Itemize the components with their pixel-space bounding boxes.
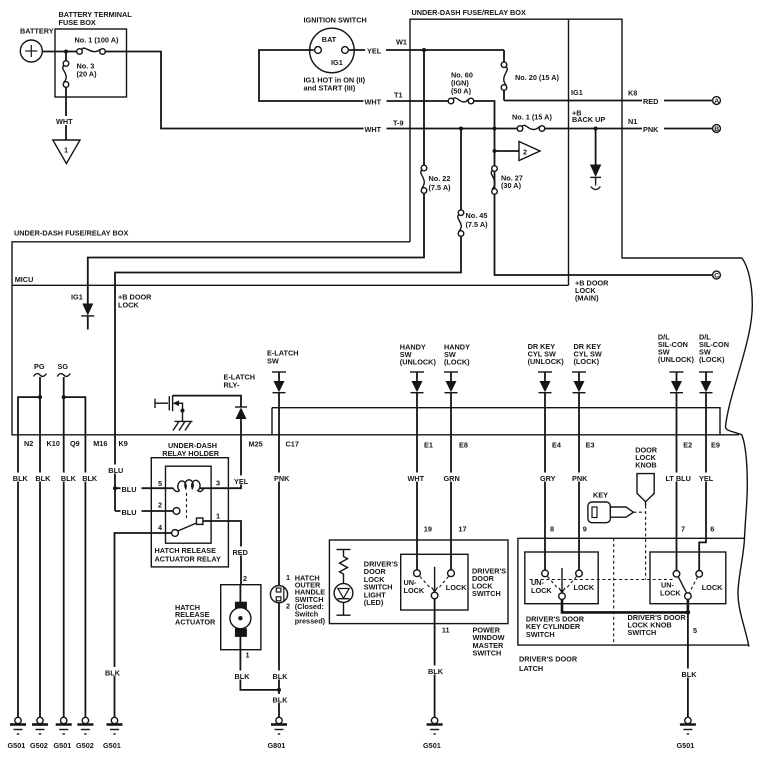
LED driver's door lock switch light — [334, 560, 398, 616]
battery — [20, 27, 54, 63]
svg-text:1: 1 — [286, 573, 290, 582]
wire IG1 K8 RED to connector A — [504, 88, 712, 101]
svg-text:WHT: WHT — [408, 474, 425, 483]
transistor e-latch driver — [155, 395, 185, 421]
under-dash relay holder box — [151, 441, 228, 567]
svg-text:A: A — [714, 98, 719, 105]
wire BLU to relay pin 2 — [115, 510, 173, 512]
wire battery to fuse box — [42, 51, 67, 53]
svg-text:WHT: WHT — [365, 98, 382, 107]
ground G501 (latch) — [677, 717, 696, 750]
svg-text:BLK: BLK — [13, 474, 29, 483]
svg-text:LOCK: LOCK — [446, 583, 467, 592]
wire ignition IG1 terminal to T1, WHT — [259, 50, 451, 101]
wire latch pin 5 BLK to ground — [687, 612, 689, 717]
driver's door key cylinder switch box — [525, 552, 598, 639]
torn page edge curve — [725, 258, 752, 647]
svg-text:YEL: YEL — [234, 477, 249, 486]
svg-text:LOCK: LOCK — [702, 583, 723, 592]
wire relay pin 1 RED to actuator — [203, 521, 247, 585]
svg-text:5: 5 — [158, 479, 162, 488]
svg-text:LOCK: LOCK — [531, 586, 552, 595]
svg-text:FUSE BOX: FUSE BOX — [59, 18, 96, 27]
ground G801 (hatch) — [268, 717, 288, 750]
svg-text:LOCK: LOCK — [660, 588, 681, 597]
ground G501 (N2) — [8, 717, 27, 750]
svg-text:T-9: T-9 — [393, 119, 404, 128]
wire E2 LT BLU to lock knob switch — [676, 435, 678, 571]
svg-text:BLK: BLK — [428, 667, 444, 676]
wire E8 GRN to master switch — [450, 435, 452, 570]
svg-text:(30 A): (30 A) — [501, 181, 522, 190]
switch symbol E-LATCH SW — [267, 349, 298, 435]
svg-text:PG: PG — [34, 362, 45, 371]
wire fuse No.22 to MICU IG1 — [88, 194, 424, 304]
svg-text:M25: M25 — [249, 440, 263, 449]
label DOOR LOCK KNOB — [635, 446, 658, 470]
switch symbol HANDY SW (UNLOCK) — [400, 343, 437, 435]
svg-text:YEL: YEL — [699, 474, 714, 483]
fuse No.45 (7.5 A) — [458, 129, 488, 237]
svg-text:SWITCH: SWITCH — [628, 628, 657, 637]
svg-text:SW: SW — [267, 357, 279, 366]
svg-text:MICU: MICU — [15, 275, 34, 284]
node W1 junction — [422, 48, 426, 52]
hatch release actuator relay box — [155, 466, 221, 563]
pointer triangle 2 — [495, 142, 541, 161]
svg-text:(LOCK): (LOCK) — [574, 357, 600, 366]
svg-text:G502: G502 — [30, 741, 48, 750]
svg-text:PNK: PNK — [643, 125, 659, 134]
svg-text:(20 A): (20 A) — [77, 69, 98, 78]
ground G502 (M16) — [76, 717, 94, 750]
switch symbol DR KEY CYL SW (LOCK) — [572, 342, 602, 435]
wire W1 to fuse No.20 — [424, 49, 504, 51]
svg-text:E1: E1 — [424, 441, 433, 450]
svg-text:7: 7 — [681, 525, 685, 534]
svg-text:BLU: BLU — [122, 485, 137, 494]
svg-text:No. 1 (100 A): No. 1 (100 A) — [75, 36, 119, 45]
thick wire latch switches common to pin 5 — [562, 599, 697, 635]
svg-text:(LED): (LED) — [364, 598, 384, 607]
under-dash fuse/relay box (MICU section) — [12, 229, 739, 435]
svg-text:UNDER-DASH FUSE/RELAY BOX: UNDER-DASH FUSE/RELAY BOX — [412, 8, 526, 17]
lock knob switch contacts — [660, 571, 723, 600]
under-dash fuse/relay box (top) — [410, 8, 742, 285]
svg-text:SWITCH: SWITCH — [526, 630, 555, 639]
svg-text:GRY: GRY — [540, 474, 556, 483]
svg-text:BLU: BLU — [122, 508, 137, 517]
svg-text:1: 1 — [216, 512, 220, 521]
svg-text:T1: T1 — [394, 91, 403, 100]
fuse No.1 (15 A) on T-9 line — [512, 113, 552, 132]
svg-text:No. 20 (15 A): No. 20 (15 A) — [515, 73, 559, 82]
wire No.1 fuse output to T-9 line — [106, 52, 410, 129]
wire fuse No.3 to triangle, WHT — [65, 88, 67, 140]
svg-text:ACTUATOR RELAY: ACTUATOR RELAY — [155, 555, 221, 564]
label +B DOOR LOCK — [118, 293, 152, 310]
svg-text:G501: G501 — [423, 741, 441, 750]
diode IG1 (MICU input) — [71, 293, 94, 330]
svg-text:SG: SG — [58, 362, 69, 371]
wire handle switch pin 2 BLK to ground — [277, 603, 281, 718]
switch symbol HANDY SW (LOCK) — [444, 343, 470, 435]
wire fuse No.45 to +B door lock — [115, 237, 461, 435]
connector labels below box — [24, 439, 720, 450]
svg-text:YEL: YEL — [367, 47, 382, 56]
svg-text:N1: N1 — [628, 117, 637, 126]
svg-text:IG1: IG1 — [571, 88, 583, 97]
svg-text:RED: RED — [643, 97, 658, 106]
fuse No.20 (15 A) — [501, 50, 559, 101]
wire transistor to relay M25, label E-LATCH RLY- — [173, 373, 255, 407]
svg-text:K10: K10 — [47, 439, 60, 448]
svg-text:PNK: PNK — [274, 474, 290, 483]
svg-text:KEY: KEY — [593, 491, 608, 500]
wire E3 PNK to key cylinder switch — [578, 435, 580, 570]
resistor (LED) — [337, 550, 351, 584]
svg-text:N2: N2 — [24, 439, 33, 448]
wire E9 YEL to lock knob switch — [699, 435, 706, 571]
svg-text:IGNITION SWITCH: IGNITION SWITCH — [304, 16, 367, 25]
svg-text:BACK UP: BACK UP — [572, 115, 605, 124]
MICU line — [12, 275, 569, 285]
relay dashed link — [186, 493, 188, 518]
svg-text:No. 22: No. 22 — [429, 174, 451, 183]
ignition switch — [304, 16, 367, 93]
wire fuse No.60 output down to +B door lock main — [474, 101, 712, 275]
svg-text:WHT: WHT — [56, 117, 73, 126]
connector circle C — [713, 271, 721, 280]
svg-text:and START (III): and START (III) — [304, 84, 356, 93]
master switch contacts — [404, 567, 468, 599]
dashed mechanical links key and knob — [530, 506, 675, 580]
wire PG branch to N2 — [18, 395, 42, 435]
svg-text:WHT: WHT — [365, 125, 382, 134]
svg-text:1: 1 — [246, 651, 250, 660]
svg-text:K8: K8 — [628, 89, 637, 98]
label WHT T-9 — [393, 119, 404, 128]
connector circle B — [713, 125, 721, 134]
svg-text:8: 8 — [550, 525, 554, 534]
svg-text:E4: E4 — [552, 441, 562, 450]
wire relay pin 4 to BLK ground wire — [115, 533, 172, 718]
driver's door latch box — [518, 538, 748, 673]
svg-text:M16: M16 — [93, 439, 107, 448]
svg-text:(LOCK): (LOCK) — [699, 355, 725, 364]
svg-text:BLU: BLU — [108, 466, 123, 475]
svg-text:G502: G502 — [76, 741, 94, 750]
svg-text:LOCK: LOCK — [404, 586, 425, 595]
switch symbol D/L SIL-CON SW (LOCK) — [699, 333, 729, 435]
wire T-9 to connector B, PNK — [410, 109, 712, 129]
svg-text:5: 5 — [693, 626, 697, 635]
svg-text:UNDER-DASH FUSE/RELAY BOX: UNDER-DASH FUSE/RELAY BOX — [14, 229, 128, 238]
wire K9 BLU down to relay — [114, 435, 116, 511]
svg-text:G801: G801 — [268, 741, 286, 750]
ground G501 (Q9) — [54, 717, 72, 750]
svg-text:C17: C17 — [286, 440, 299, 449]
relay contacts — [172, 508, 203, 537]
driver's door lock switch box — [401, 554, 507, 610]
svg-text:BLK: BLK — [235, 672, 251, 681]
svg-text:BLK: BLK — [273, 696, 289, 705]
svg-text:LT BLU: LT BLU — [666, 474, 691, 483]
wire actuator pin 1 BLK to ground junction — [240, 650, 279, 690]
wire relay pin 3 YEL to M25 — [211, 435, 241, 488]
svg-text:PNK: PNK — [572, 474, 588, 483]
svg-text:BLK: BLK — [82, 474, 98, 483]
svg-text:BATTERY: BATTERY — [20, 27, 54, 36]
diode in +B back up column — [590, 129, 601, 190]
svg-text:W1: W1 — [396, 38, 407, 47]
svg-text:(LOCK): (LOCK) — [444, 358, 470, 367]
svg-text:RELAY HOLDER: RELAY HOLDER — [162, 449, 219, 458]
switch symbol DR KEY CYL SW (UNLOCK) — [528, 342, 565, 435]
svg-text:2: 2 — [523, 148, 527, 157]
wire E4 GRY to key cylinder switch — [544, 435, 546, 570]
wires N2 K10 Q9 M16 to grounds — [17, 435, 19, 718]
hatch outer handle switch — [270, 573, 325, 626]
battery terminal fuse box — [55, 10, 132, 97]
svg-text:E9: E9 — [711, 441, 720, 450]
svg-text:GRN: GRN — [444, 474, 460, 483]
wire ignition BAT terminal, YEL — [348, 38, 424, 51]
svg-text:(UNLOCK): (UNLOCK) — [658, 355, 695, 364]
svg-text:G501: G501 — [8, 741, 26, 750]
svg-text:(50 A): (50 A) — [451, 87, 472, 96]
svg-text:IG1: IG1 — [71, 293, 83, 302]
fuse No.1 (100 A) — [66, 36, 119, 55]
svg-text:No. 1 (15 A): No. 1 (15 A) — [512, 113, 552, 122]
svg-text:G501: G501 — [103, 741, 121, 750]
svg-text:BLK: BLK — [35, 474, 51, 483]
label +B DOOR LOCK (MAIN) — [575, 279, 609, 303]
svg-text:(7.5 A): (7.5 A) — [466, 220, 489, 229]
ground G501 (master switch) — [423, 717, 443, 750]
pin PG — [34, 362, 47, 435]
svg-text:BAT: BAT — [322, 35, 337, 44]
svg-text:RED: RED — [233, 548, 248, 557]
svg-text:BLK: BLK — [61, 474, 77, 483]
svg-text:G501: G501 — [54, 741, 72, 750]
node battery junction — [64, 50, 68, 54]
svg-text:11: 11 — [442, 626, 450, 635]
relay pin labels — [158, 479, 220, 533]
connector circle A — [713, 97, 721, 105]
wire C17 PNK to hatch outer handle switch — [278, 435, 280, 586]
pin SG — [57, 362, 70, 435]
wire E1 WHT to master switch — [416, 435, 418, 570]
connector triangle 1 — [53, 140, 80, 164]
svg-text:LOCK: LOCK — [118, 301, 139, 310]
svg-text:K9: K9 — [119, 439, 128, 448]
svg-text:No. 45: No. 45 — [466, 211, 488, 220]
svg-text:BLK: BLK — [273, 672, 289, 681]
node T-9 junctions — [459, 127, 463, 131]
svg-text:KNOB: KNOB — [635, 461, 657, 470]
svg-text:DRIVER'S DOOR: DRIVER'S DOOR — [519, 655, 578, 664]
svg-text:SWITCH: SWITCH — [473, 649, 502, 658]
svg-text:3: 3 — [216, 479, 220, 488]
wire SG branch to M16 — [62, 395, 86, 435]
svg-text:Q9: Q9 — [70, 439, 80, 448]
connector strip lines — [272, 408, 720, 435]
diode M25 (pointing up) — [235, 407, 247, 435]
svg-text:BLK: BLK — [682, 670, 698, 679]
svg-text:E8: E8 — [459, 441, 468, 450]
fuse No.3 (20 A) — [63, 52, 97, 88]
svg-text:6: 6 — [710, 525, 714, 534]
key cylinder switch contacts — [531, 568, 595, 600]
svg-text:1: 1 — [64, 146, 68, 155]
svg-text:G501: G501 — [677, 741, 695, 750]
svg-text:9: 9 — [583, 525, 587, 534]
svg-text:E2: E2 — [683, 441, 692, 450]
svg-text:17: 17 — [458, 525, 466, 534]
dashed divider in latch box — [613, 538, 615, 645]
ground G501 (relay pin 4 BLK) — [103, 717, 123, 750]
fuse No.27 (30 A) — [491, 166, 523, 195]
svg-text:BLK: BLK — [105, 669, 121, 678]
svg-text:ACTUATOR: ACTUATOR — [175, 617, 216, 626]
svg-text:19: 19 — [424, 525, 432, 534]
svg-text:LATCH: LATCH — [519, 664, 543, 673]
svg-text:(MAIN): (MAIN) — [575, 294, 599, 303]
svg-text:2: 2 — [243, 574, 247, 583]
svg-text:E3: E3 — [586, 441, 595, 450]
ground G502 (K10) — [30, 717, 48, 750]
svg-text:(7.5 A): (7.5 A) — [429, 183, 452, 192]
svg-text:2: 2 — [286, 602, 290, 611]
svg-text:RLY-: RLY- — [224, 381, 241, 390]
fuse No.22 (7.5 A) — [421, 50, 451, 193]
svg-text:2: 2 — [158, 501, 162, 510]
chassis ground of transistor — [173, 421, 193, 430]
svg-text:B: B — [714, 126, 719, 133]
wire BLU to relay pin 5 — [115, 487, 166, 489]
svg-text:SWITCH: SWITCH — [472, 589, 501, 598]
svg-text:(UNLOCK): (UNLOCK) — [528, 357, 565, 366]
svg-text:C: C — [714, 273, 719, 280]
fuse No.60 (IGN) (50 A) — [448, 71, 474, 104]
switch symbol D/L SIL-CON SW (UNLOCK) — [658, 333, 695, 435]
key symbol — [588, 491, 634, 523]
svg-text:(UNLOCK): (UNLOCK) — [400, 358, 437, 367]
svg-text:pressed): pressed) — [295, 617, 326, 626]
relay coil — [166, 480, 212, 492]
driver's door lock knob switch box — [628, 552, 726, 637]
wire master switch pin 11 BLK to ground — [435, 599, 450, 718]
hatch release actuator — [175, 585, 261, 650]
svg-text:LOCK: LOCK — [574, 583, 595, 592]
svg-text:IG1: IG1 — [331, 58, 343, 67]
door lock knob symbol — [637, 474, 654, 506]
power window master switch box — [329, 540, 508, 658]
